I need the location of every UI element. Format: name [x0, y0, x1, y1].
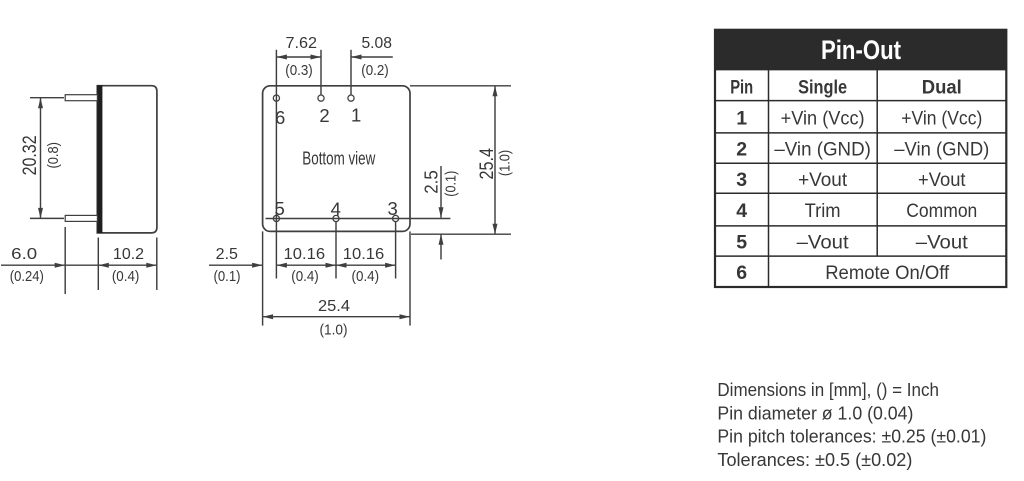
svg-text:(0.3): (0.3) [285, 62, 313, 79]
svg-text:5.08: 5.08 [361, 35, 392, 52]
svg-text:(0.4): (0.4) [352, 268, 380, 285]
svg-text:(0.4): (0.4) [291, 268, 319, 285]
svg-text:2: 2 [736, 139, 747, 161]
svg-text:2.5: 2.5 [216, 246, 238, 263]
svg-text:10.16: 10.16 [343, 246, 385, 263]
svg-text:Pin diameter ø 1.0 (0.04): Pin diameter ø 1.0 (0.04) [717, 402, 913, 423]
svg-text:5: 5 [736, 232, 747, 254]
svg-text:5: 5 [274, 198, 284, 219]
svg-text:3: 3 [736, 169, 747, 191]
svg-text:–Vin (GND): –Vin (GND) [774, 139, 871, 161]
svg-text:Pin pitch tolerances: ±0.25 (±: Pin pitch tolerances: ±0.25 (±0.01) [717, 426, 986, 447]
svg-text:–Vin (GND): –Vin (GND) [894, 139, 989, 161]
svg-text:Pin-Out: Pin-Out [821, 35, 901, 65]
svg-text:6: 6 [736, 262, 747, 284]
svg-text:(1.0): (1.0) [496, 150, 513, 176]
svg-text:6.0: 6.0 [11, 246, 37, 263]
svg-text:Common: Common [906, 200, 977, 222]
svg-text:(0.1): (0.1) [214, 268, 241, 285]
svg-text:10.16: 10.16 [284, 246, 326, 263]
svg-text:Single: Single [798, 77, 847, 99]
svg-text:Trim: Trim [805, 200, 841, 222]
svg-text:+Vout: +Vout [918, 169, 966, 191]
svg-text:(1.0): (1.0) [320, 321, 348, 338]
svg-text:(0.1): (0.1) [443, 171, 460, 197]
svg-text:Pin: Pin [730, 77, 753, 99]
svg-text:+Vin (Vcc): +Vin (Vcc) [901, 107, 982, 129]
svg-text:1: 1 [351, 104, 361, 125]
svg-text:1: 1 [736, 107, 747, 129]
svg-text:25.4: 25.4 [318, 298, 350, 315]
svg-text:–Vout: –Vout [797, 232, 850, 254]
svg-text:4: 4 [736, 200, 747, 222]
svg-text:10.2: 10.2 [113, 246, 144, 263]
svg-text:Dual: Dual [922, 77, 962, 99]
svg-text:2: 2 [319, 105, 329, 126]
svg-text:7.62: 7.62 [286, 35, 318, 52]
svg-text:(0.24): (0.24) [10, 268, 44, 285]
svg-text:4: 4 [331, 199, 341, 220]
svg-text:Tolerances: ±0.5 (±0.02): Tolerances: ±0.5 (±0.02) [717, 449, 912, 470]
svg-text:6: 6 [275, 107, 285, 128]
svg-text:+Vout: +Vout [798, 169, 848, 191]
svg-text:25.4: 25.4 [477, 148, 498, 180]
svg-text:(0.4): (0.4) [112, 268, 140, 285]
svg-text:20.32: 20.32 [20, 135, 41, 175]
svg-text:Bottom view: Bottom view [302, 148, 376, 168]
svg-text:(0.2): (0.2) [361, 62, 389, 79]
svg-text:+Vin (Vcc): +Vin (Vcc) [781, 107, 865, 129]
svg-text:2.5: 2.5 [422, 170, 442, 194]
svg-text:–Vout: –Vout [916, 232, 969, 254]
svg-text:(0.8): (0.8) [45, 142, 62, 169]
svg-text:Dimensions in [mm], () = Inch: Dimensions in [mm], () = Inch [717, 379, 939, 400]
svg-text:Remote On/Off: Remote On/Off [825, 262, 950, 284]
svg-text:3: 3 [388, 198, 398, 219]
